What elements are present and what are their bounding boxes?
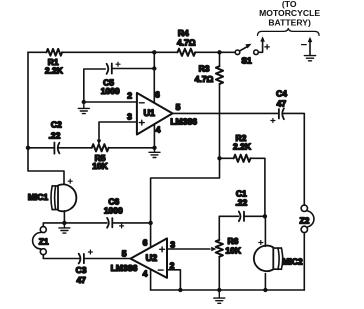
ground below R5 node: [149, 148, 160, 158]
svg-text:10K: 10K: [225, 245, 241, 255]
resistor R3: [195, 63, 223, 84]
wire U1 pin3 to R5 wiper: [99, 122, 137, 140]
wire top rail middle segment: [62, 51, 177, 53]
svg-text:C4: C4: [276, 88, 287, 98]
label (TO MOTORCYCLE BATTERY): [259, 0, 320, 28]
R6 wiper arrow: [211, 247, 216, 252]
wire MIC1 bottom terminal: [63, 211, 65, 223]
wire C1 right lead: [244, 215, 265, 217]
svg-text:6: 6: [143, 238, 148, 248]
wire U2 pin3 to R6 wiper: [167, 248, 210, 250]
potentiometer R6: [216, 236, 242, 257]
switch S1: [235, 44, 258, 66]
wire U1 pin4: [153, 124, 155, 148]
node junction C5 / U1 pin6 line: [152, 66, 156, 70]
svg-text:1000: 1000: [101, 86, 120, 96]
svg-text:R4: R4: [178, 28, 189, 38]
battery plus terminal arrow: [260, 36, 265, 41]
capacitor C2: [48, 120, 62, 154]
svg-text:LM386: LM386: [170, 117, 197, 127]
resistor R1: [45, 49, 64, 76]
svg-text:2.2K: 2.2K: [45, 65, 64, 75]
svg-text:R6: R6: [227, 236, 238, 246]
op-amp U2 LM386: [111, 238, 176, 279]
svg-text:4: 4: [156, 125, 161, 135]
ground battery minus: [304, 56, 315, 61]
wire U2 pin2 to bottom rail: [167, 270, 180, 290]
svg-text:MIC2: MIC2: [282, 257, 303, 267]
svg-text:.22: .22: [48, 131, 60, 141]
wire switch to battery plus: [258, 41, 262, 52]
svg-text:LM386: LM386: [111, 263, 138, 273]
svg-text:1000: 1000: [104, 205, 123, 215]
resistor R4: [177, 28, 196, 56]
node junction rail / pin6 line: [152, 50, 156, 54]
wire R3 branch vertical: [219, 52, 221, 66]
wire R6 bottom lead: [218, 257, 220, 290]
microphone MIC2: [254, 241, 303, 272]
capacitor C4: [271, 88, 287, 122]
R5 wiper arrow: [97, 140, 102, 145]
ground below MIC1: [59, 223, 70, 233]
node junction R2 tap: [217, 156, 221, 160]
wire C3 left lead to Z1: [43, 255, 79, 259]
node junction R4/R3: [217, 50, 221, 54]
svg-text:MIC1: MIC1: [28, 192, 49, 202]
wire C6 right lead: [112, 222, 150, 224]
svg-text:2.2K: 2.2K: [233, 142, 252, 152]
svg-text:2: 2: [127, 91, 132, 101]
capacitor C5: [101, 62, 120, 96]
wire R5 to ground node: [109, 147, 155, 149]
wire C1 left lead: [219, 215, 238, 217]
svg-text:3: 3: [170, 240, 175, 250]
wire C2 to R5: [59, 147, 92, 149]
wire C4 to Z2: [284, 113, 305, 204]
resistor R2: [233, 133, 252, 162]
svg-text:U1: U1: [143, 108, 155, 118]
node junction MIC1 ground: [62, 221, 66, 225]
ground bottom center: [214, 290, 225, 303]
jack Z1: [33, 227, 49, 255]
wire C5 left lead: [84, 69, 106, 102]
svg-text:4.7Ω: 4.7Ω: [177, 37, 196, 47]
svg-text:47: 47: [76, 275, 86, 285]
wire R3 to U2 supply jog: [151, 84, 220, 247]
wire R2 left lead: [220, 157, 234, 159]
wire top rail right segment: [195, 51, 235, 53]
svg-text:C2: C2: [51, 120, 62, 130]
capacitor C3: [76, 250, 93, 285]
wire U2 pin4 to bottom rail: [150, 269, 152, 290]
svg-text:4.7Ω: 4.7Ω: [195, 74, 214, 84]
wire U2 output pin5: [84, 258, 131, 260]
svg-text:5: 5: [122, 249, 127, 259]
wire MIC2 bottom terminal: [264, 274, 266, 291]
svg-text:S1: S1: [241, 55, 252, 65]
ground below U1 pin2 node: [78, 102, 89, 114]
wire top rail left segment: [28, 51, 47, 53]
node junction C1 / R2 / MIC2: [263, 214, 267, 218]
node junction pin2 / bottom rail: [178, 288, 182, 292]
node junction C6 / U2 pin6 line: [148, 221, 152, 225]
node junction MIC2 / bottom rail: [263, 288, 267, 292]
svg-text:BATTERY): BATTERY): [268, 18, 311, 28]
svg-text:3: 3: [127, 112, 132, 122]
jack Z2: [299, 205, 313, 232]
svg-text:5: 5: [176, 102, 181, 112]
node junction R5 / U1 pin4 ground: [152, 146, 156, 150]
svg-text:U2: U2: [146, 253, 158, 263]
svg-text:6: 6: [155, 90, 160, 100]
wire R2 right lead to MIC2 node: [251, 158, 265, 216]
wire C2 left lead: [28, 147, 54, 149]
battery minus terminal arrow: [302, 37, 313, 55]
wire Z1 top to ground rail: [43, 223, 107, 227]
node junction R6 / bottom rail / ground: [217, 288, 221, 292]
potentiometer R5: [92, 144, 109, 171]
svg-text:Z1: Z1: [39, 236, 49, 246]
op-amp U1 LM386: [127, 90, 197, 135]
wire bottom rail: [151, 289, 305, 291]
svg-text:C3: C3: [76, 265, 87, 275]
wire left rail: [28, 52, 64, 185]
svg-text:R3: R3: [199, 63, 210, 73]
svg-text:10K: 10K: [92, 161, 108, 171]
wire Z2 to bottom rail: [303, 233, 305, 290]
node junction left rail / C2: [26, 146, 30, 150]
svg-text:47: 47: [277, 99, 287, 109]
capacitor C6: [104, 196, 124, 228]
node junction pin2 / C5 / ground: [82, 100, 86, 104]
wire U1 pin6 supply: [153, 52, 155, 103]
wire MIC2 top terminal: [264, 216, 266, 246]
microphone MIC1: [28, 179, 77, 211]
wire R6 top lead: [218, 216, 220, 240]
svg-text:4: 4: [143, 269, 148, 279]
capacitor C1: [235, 189, 247, 222]
wire U1 output pin5: [173, 112, 278, 114]
svg-text:.22: .22: [235, 198, 247, 208]
wire C5 right lead: [112, 68, 155, 70]
svg-text:Z2: Z2: [299, 216, 309, 226]
wire U1 pin2: [84, 101, 137, 103]
brace over battery terminals: [258, 29, 320, 36]
